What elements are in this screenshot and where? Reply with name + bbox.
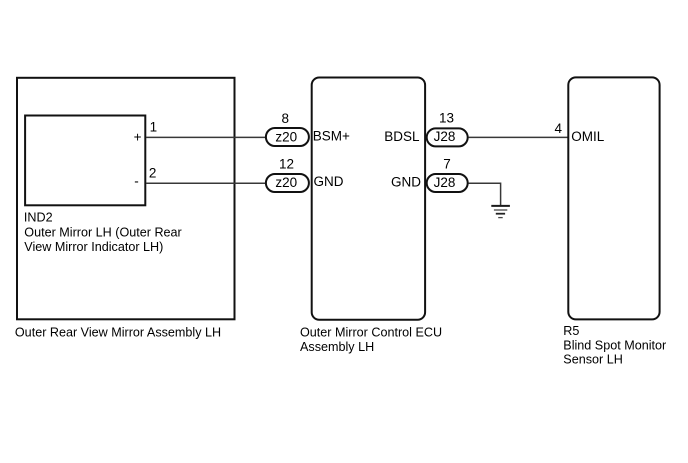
svg-text:4: 4 <box>555 121 563 136</box>
svg-text:Blind Spot Monitor: Blind Spot Monitor <box>563 338 666 352</box>
svg-text:1: 1 <box>150 120 158 135</box>
svg-text:Assembly LH: Assembly LH <box>300 340 374 354</box>
wire pin1 to z20 <box>146 136 266 138</box>
svg-text:Outer Rear View Mirror Assembl: Outer Rear View Mirror Assembly LH <box>15 325 221 339</box>
ground symbol <box>491 206 510 218</box>
svg-text:IND2: IND2 <box>24 210 53 224</box>
svg-text:z20: z20 <box>275 175 297 190</box>
wire pin2 to z20 <box>146 182 266 184</box>
connector J28 pin 7 oval <box>427 174 468 192</box>
svg-text:7: 7 <box>443 156 451 171</box>
svg-text:13: 13 <box>439 111 454 126</box>
connector z20 pin 12 oval <box>266 174 309 192</box>
svg-text:2: 2 <box>149 165 157 180</box>
connector J28 pin 13 oval <box>427 128 468 146</box>
svg-text:Outer Mirror Control ECU: Outer Mirror Control ECU <box>300 325 442 339</box>
svg-text:GND: GND <box>391 175 421 190</box>
blind spot monitor sensor box <box>568 77 659 319</box>
svg-text:GND: GND <box>314 174 344 189</box>
svg-text:BSM+: BSM+ <box>313 129 350 144</box>
svg-text:OMIL: OMIL <box>571 129 604 144</box>
svg-text:J28: J28 <box>434 175 456 190</box>
svg-text:-: - <box>134 173 139 188</box>
svg-text:BDSL: BDSL <box>384 129 420 144</box>
svg-text:+: + <box>134 129 142 144</box>
wire GND to ground <box>469 183 501 205</box>
outer mirror control ECU box <box>312 78 425 320</box>
svg-text:J28: J28 <box>434 129 456 144</box>
svg-text:R5: R5 <box>563 324 579 338</box>
svg-text:Outer Mirror LH (Outer Rear: Outer Mirror LH (Outer Rear <box>24 226 181 240</box>
outer rear view mirror assembly LH box <box>17 78 235 319</box>
wire BDSL to blind spot monitor sensor <box>469 136 569 138</box>
svg-text:z20: z20 <box>275 129 297 144</box>
indicator IND2 box <box>25 116 145 206</box>
svg-text:View Mirror Indicator LH): View Mirror Indicator LH) <box>24 240 163 254</box>
svg-text:Sensor LH: Sensor LH <box>563 352 623 366</box>
connector z20 pin 8 oval <box>266 128 309 146</box>
svg-text:12: 12 <box>279 157 294 172</box>
svg-text:8: 8 <box>282 111 290 126</box>
